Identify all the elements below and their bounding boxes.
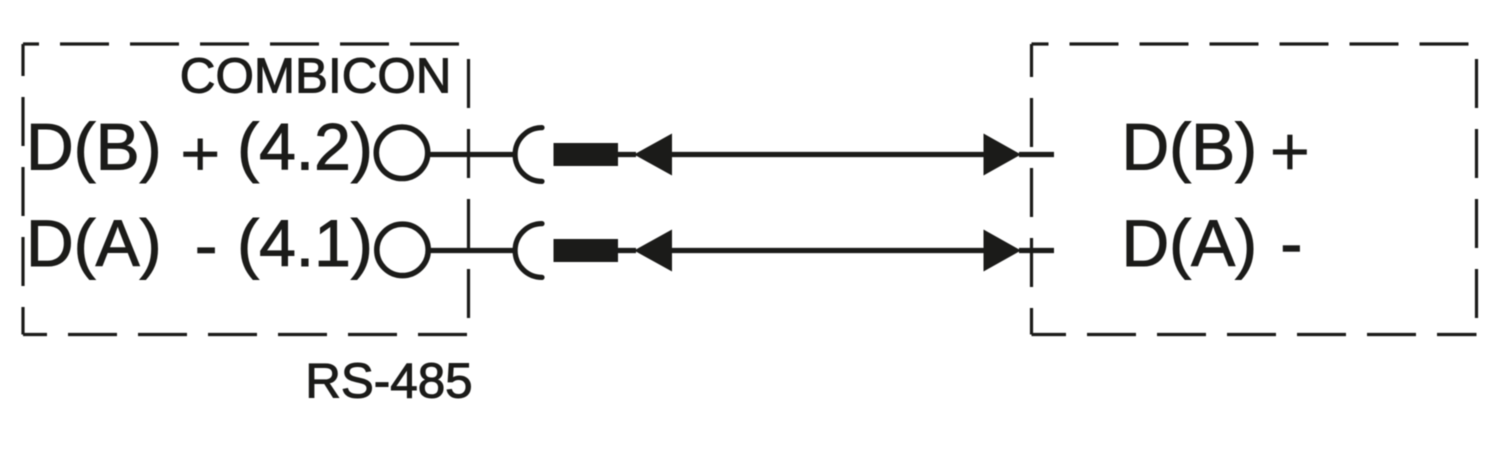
wire row1: circle to socket — [428, 152, 514, 157]
wire row2: ferrule to arrow — [618, 248, 636, 253]
wire row2: cable run — [672, 248, 984, 253]
polarity minus (right row2) — [1283, 245, 1300, 251]
svg-text:(4.2): (4.2) — [237, 109, 373, 183]
arrowhead right row2 — [984, 230, 1022, 272]
arrowhead left row2 — [634, 230, 672, 272]
svg-text:(4.1): (4.1) — [237, 206, 373, 280]
wire row1: stub into device — [1019, 152, 1054, 157]
socket contact arc row2 — [515, 224, 542, 278]
pin label D(B) (4.2) — [26, 109, 373, 183]
terminal circle 4.1 — [377, 224, 428, 275]
polarity plus (right row1) — [1273, 135, 1307, 170]
wire row2: circle to socket — [429, 248, 514, 253]
wire row2: stub into device — [1019, 248, 1054, 253]
arrowhead left row1 — [634, 134, 672, 176]
dashed box: remote RS-485 device — [1032, 44, 1477, 335]
dashed box: COMBICON terminal block — [23, 44, 469, 335]
ferrule row2 — [554, 239, 619, 262]
svg-text:COMBICON: COMBICON — [180, 49, 452, 104]
arrowhead right row1 — [984, 134, 1022, 176]
terminal circle 4.2 — [376, 127, 427, 178]
polarity minus (left row2) — [197, 247, 215, 253]
ferrule row1 — [554, 143, 619, 166]
polarity plus (left row1) — [183, 139, 217, 170]
socket contact arc row1 — [515, 128, 542, 182]
svg-text:RS-485: RS-485 — [305, 354, 472, 409]
wire row1: ferrule to arrow — [618, 152, 636, 157]
svg-text:D(B): D(B) — [1122, 109, 1258, 183]
wire row1: cable run — [672, 152, 984, 157]
svg-text:D(B): D(B) — [26, 109, 162, 183]
pin label D(A) - (4.1) — [26, 206, 373, 280]
svg-text:D(A): D(A) — [26, 206, 162, 280]
svg-text:D(A): D(A) — [1122, 206, 1258, 280]
